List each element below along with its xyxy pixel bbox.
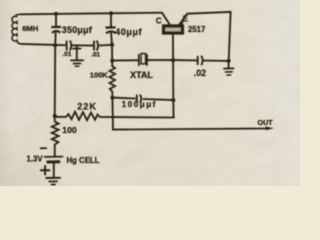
svg-text:.01: .01	[63, 51, 72, 58]
svg-text:40μμf: 40μμf	[115, 27, 142, 37]
svg-text:1.3V: 1.3V	[27, 154, 44, 163]
svg-text:E: E	[183, 14, 188, 23]
svg-text:XTAL: XTAL	[130, 70, 153, 80]
svg-text:2517: 2517	[188, 25, 205, 34]
svg-text:350μμf: 350μμf	[62, 25, 93, 35]
svg-text:100K: 100K	[90, 70, 109, 79]
svg-text:100μμf: 100μμf	[122, 100, 157, 109]
svg-text:Hg CELL: Hg CELL	[67, 156, 100, 165]
svg-text:.02: .02	[194, 68, 206, 78]
svg-text:.01: .01	[91, 52, 100, 59]
svg-text:100: 100	[62, 125, 77, 135]
svg-text:6MH: 6MH	[22, 24, 38, 33]
svg-text:C: C	[156, 17, 162, 26]
svg-text:OUT: OUT	[258, 118, 274, 127]
svg-text:22K: 22K	[77, 101, 97, 111]
